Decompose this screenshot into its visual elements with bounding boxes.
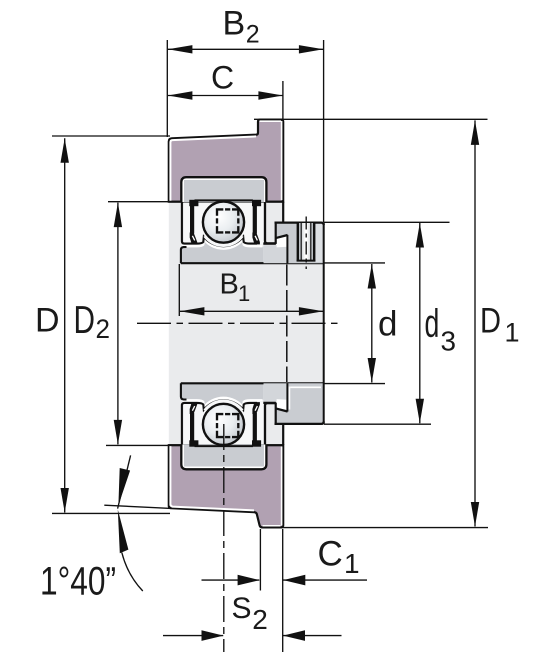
svg-text:d: d xyxy=(378,305,397,344)
svg-text:3: 3 xyxy=(441,326,457,357)
svg-text:d: d xyxy=(425,302,440,346)
svg-text:2: 2 xyxy=(246,21,260,49)
svg-text:1: 1 xyxy=(238,281,250,306)
svg-text:2: 2 xyxy=(252,604,268,635)
svg-text:1°40”: 1°40” xyxy=(40,560,116,604)
svg-text:C: C xyxy=(318,535,343,574)
svg-text:S: S xyxy=(232,592,252,625)
svg-text:D: D xyxy=(35,302,60,340)
svg-text:D: D xyxy=(74,299,96,342)
svg-text:C: C xyxy=(211,60,234,96)
svg-text:2: 2 xyxy=(96,314,111,344)
svg-text:D: D xyxy=(480,302,501,341)
svg-text:B: B xyxy=(220,269,239,301)
svg-text:1: 1 xyxy=(505,318,520,348)
svg-text:B: B xyxy=(223,5,246,43)
svg-text:1: 1 xyxy=(344,548,360,579)
